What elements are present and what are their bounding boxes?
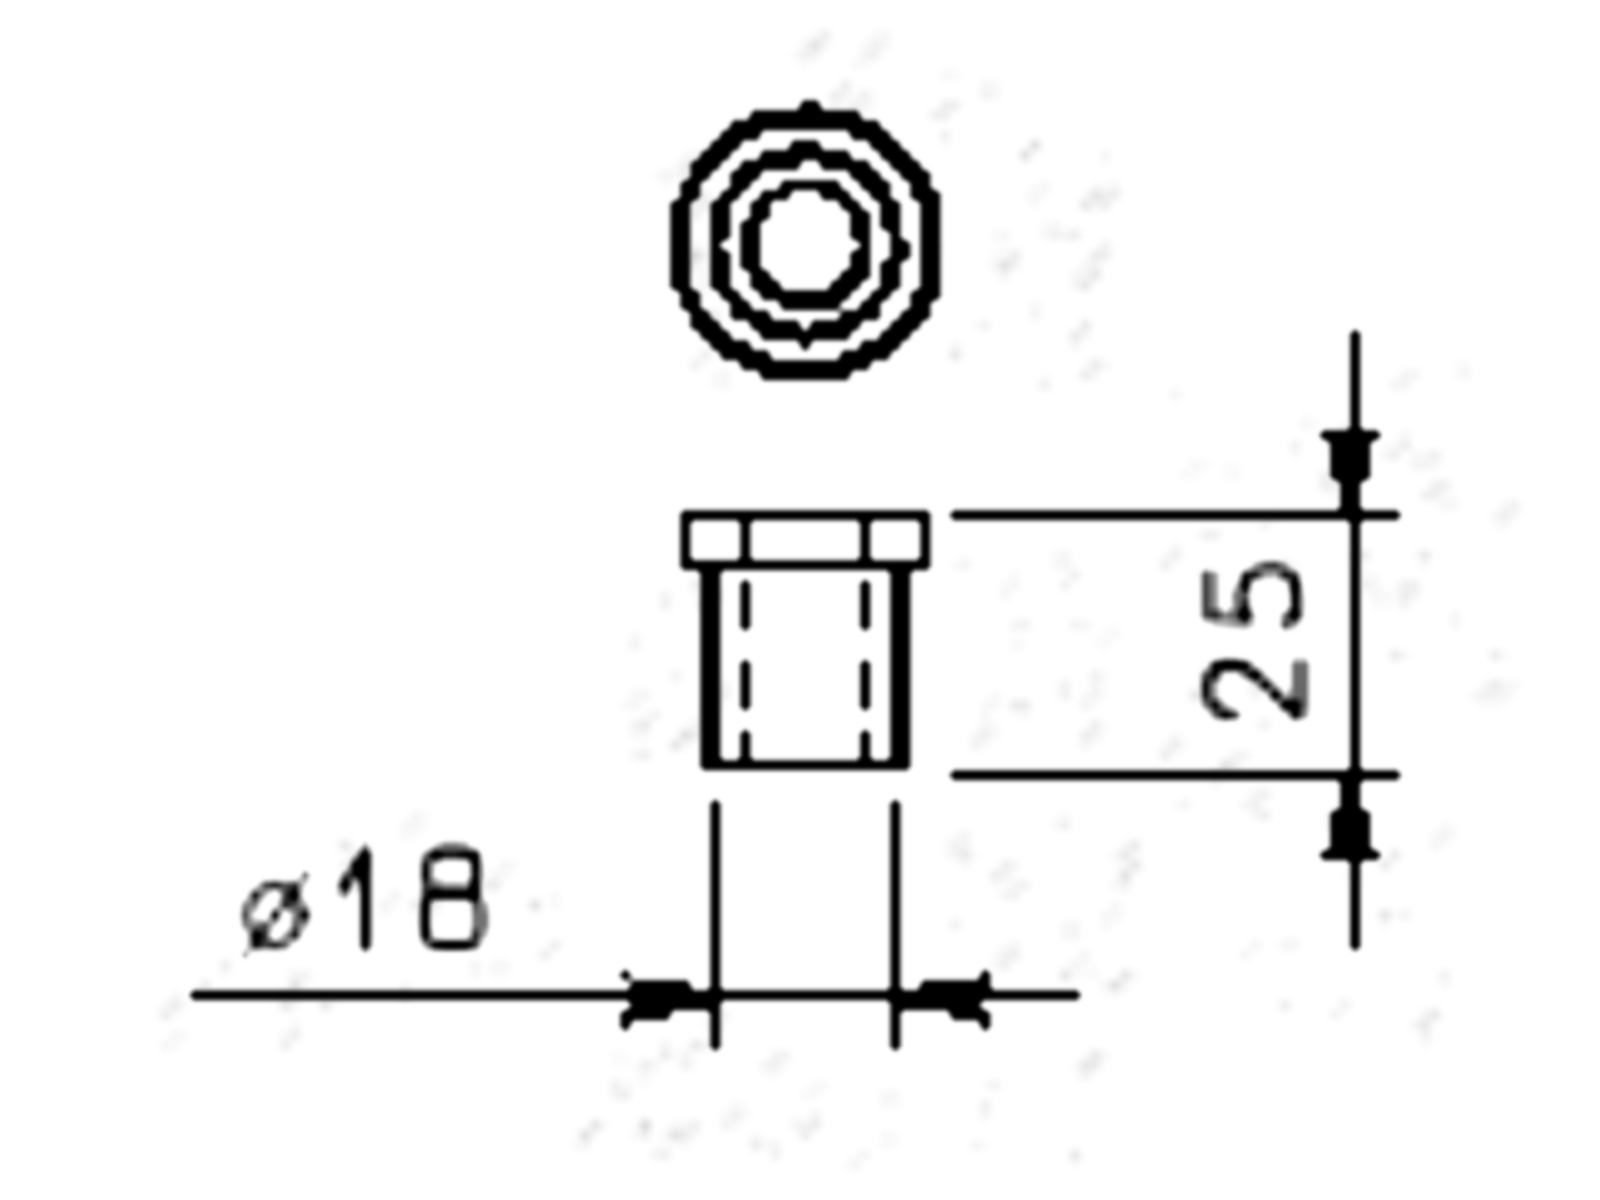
vertical dimension line 25 bbox=[1347, 328, 1355, 948]
arrowhead left for ø18 bbox=[897, 977, 993, 1021]
body bottom edge bbox=[705, 761, 906, 774]
extension line left of ø18 bbox=[713, 796, 720, 1049]
arrowhead down for 25 bbox=[1329, 416, 1373, 511]
top view inner circle (bore ø18) bbox=[746, 185, 864, 303]
hidden dashed bore line right bbox=[865, 579, 874, 762]
arrowhead up for 25 bbox=[1329, 777, 1373, 872]
arrowhead right for ø18 bbox=[621, 977, 716, 1021]
top view middle circle (body OD) bbox=[715, 154, 895, 334]
extension line right of ø18 bbox=[894, 796, 901, 1049]
body right wall bbox=[894, 569, 906, 770]
flange inner edge right bbox=[865, 519, 874, 559]
top view outer circle (flange OD) bbox=[678, 117, 932, 371]
flange inner edge left bbox=[737, 519, 746, 559]
hidden dashed bore line left bbox=[738, 579, 747, 762]
extension line bottom of 25 dimension bbox=[952, 772, 1402, 780]
dimension line ø18 bbox=[191, 995, 1080, 1003]
flange outline (front view) bbox=[682, 515, 928, 563]
extension line top of 25 dimension bbox=[950, 508, 1401, 516]
body left wall bbox=[705, 569, 717, 770]
